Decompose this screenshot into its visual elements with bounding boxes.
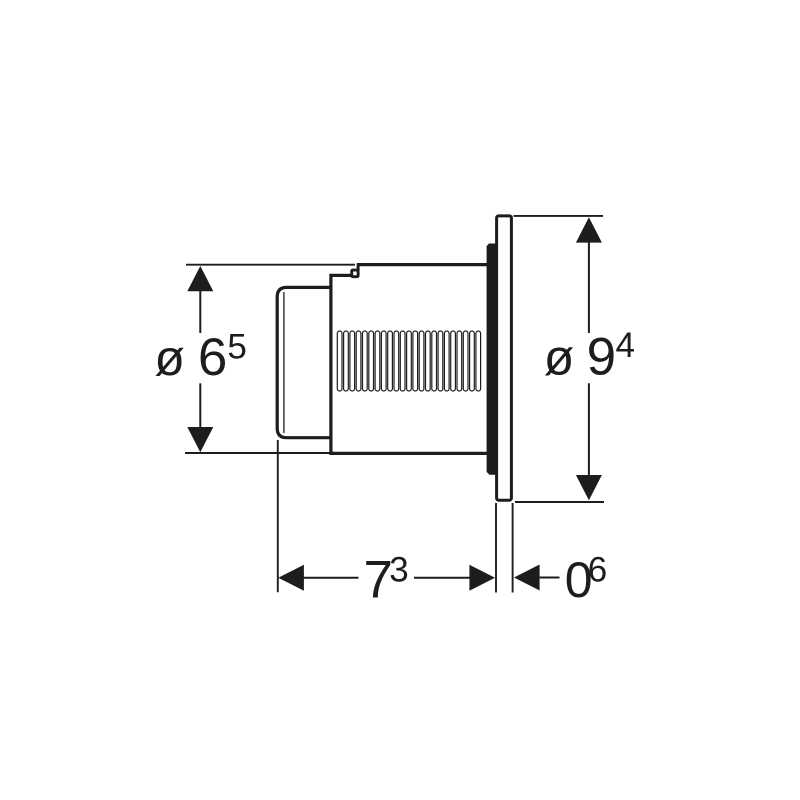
button cap (front) xyxy=(277,287,331,437)
dim 0⁶ arrow xyxy=(514,565,540,591)
dim ø9⁴ top arrow xyxy=(576,217,602,242)
dim 7³ left arrow xyxy=(278,565,304,591)
dim 7³ left extension line xyxy=(277,440,279,592)
valve body outline xyxy=(331,265,489,454)
mounting flange (dark) xyxy=(487,244,496,475)
cover plate (edge view) xyxy=(497,216,512,500)
svg-text:5: 5 xyxy=(227,328,246,367)
label 7³ xyxy=(364,551,409,610)
svg-text:6: 6 xyxy=(588,550,607,589)
svg-text:4: 4 xyxy=(616,326,635,365)
svg-text:3: 3 xyxy=(389,551,408,590)
dim 7³ line right xyxy=(414,577,470,579)
label ø 6⁵ xyxy=(154,328,246,387)
dim ø6⁵ line upper xyxy=(199,289,201,333)
button cap face edge line xyxy=(283,292,285,433)
dim 0⁶ line xyxy=(540,577,560,579)
dim ø6⁵ top extension line xyxy=(186,264,355,266)
plate right extension line xyxy=(512,503,514,593)
step connector xyxy=(357,263,360,270)
plate left extension line xyxy=(495,503,497,593)
dim ø9⁴ bottom extension line xyxy=(515,501,604,503)
vent hole (small square) xyxy=(352,270,358,277)
dim 7³ right arrow xyxy=(469,565,495,591)
svg-text:9: 9 xyxy=(587,327,616,386)
ribbed grip section xyxy=(337,331,480,391)
svg-text:6: 6 xyxy=(198,328,227,387)
svg-text:ø: ø xyxy=(154,330,185,386)
label ø 9⁴ xyxy=(544,326,635,386)
dim ø9⁴ line upper xyxy=(588,240,590,333)
dim ø6⁵ top arrow xyxy=(187,266,213,291)
dim ø9⁴ top extension line xyxy=(514,215,604,217)
svg-text:ø: ø xyxy=(544,330,575,386)
label 0⁶ xyxy=(565,550,607,608)
dim ø6⁵ line lower xyxy=(199,383,201,429)
dim ø9⁴ line lower xyxy=(588,383,590,477)
dim ø6⁵ bottom arrow xyxy=(187,427,213,452)
dim ø9⁴ bottom arrow xyxy=(576,475,602,500)
dim 7³ line left xyxy=(302,577,359,579)
dim ø6⁵ bottom extension line xyxy=(185,452,330,454)
